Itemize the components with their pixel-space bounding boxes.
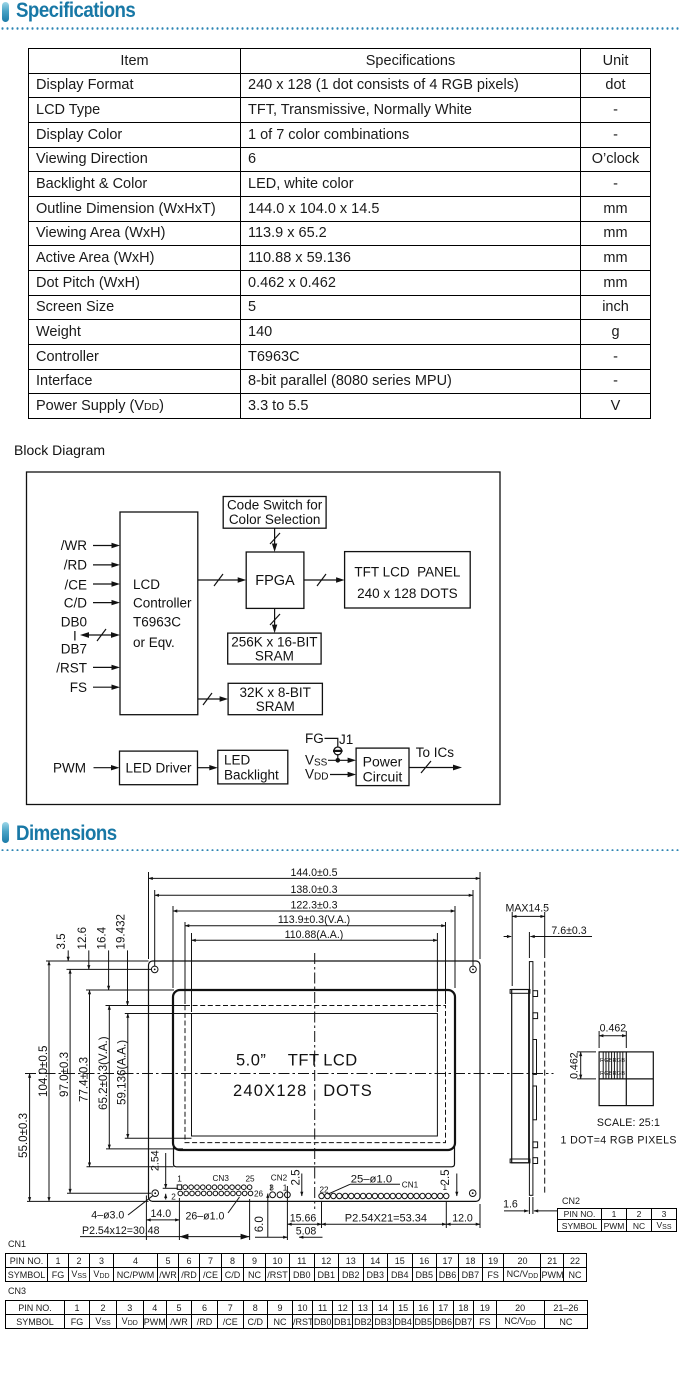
wire PWM to LED Driver xyxy=(94,765,120,770)
svg-text:59.136(A.A.): 59.136(A.A.) xyxy=(116,1040,129,1105)
side view bezel body xyxy=(512,990,529,1163)
dimension 77.4±0.3 xyxy=(77,990,173,1167)
dot pitch detail grid xyxy=(599,1052,653,1106)
svg-text:/CE: /CE xyxy=(64,578,87,593)
svg-text:32K x 8-BIT: 32K x 8-BIT xyxy=(240,685,311,700)
jumper J1 circle symbol xyxy=(333,747,343,755)
svg-text:12.6: 12.6 xyxy=(76,927,89,950)
svg-text:SRAM: SRAM xyxy=(256,699,295,714)
svg-text:113.9±0.3(V.A.): 113.9±0.3(V.A.) xyxy=(278,914,350,926)
mounting hole top-left xyxy=(151,966,158,973)
dimension 59.136 active area xyxy=(116,1014,192,1139)
viewing area dashed rectangle xyxy=(185,1006,446,1143)
side view mounting tabs xyxy=(533,1040,537,1120)
svg-text:CN3: CN3 xyxy=(213,1174,230,1183)
FPGA U-block xyxy=(246,552,304,608)
svg-text:0.462: 0.462 xyxy=(600,1023,627,1035)
svg-text:25: 25 xyxy=(245,1175,255,1184)
svg-text:C/D: C/D xyxy=(64,596,88,611)
svg-text:/WR: /WR xyxy=(61,538,87,553)
dimension 104.0±0.5 xyxy=(37,961,149,1201)
block diagram svg xyxy=(0,430,680,820)
svg-text:7.6±0.3: 7.6±0.3 xyxy=(551,925,586,937)
svg-text:/RST: /RST xyxy=(56,661,87,676)
node junction dot on Vss line xyxy=(336,758,341,763)
side view bezel top lip xyxy=(510,990,530,994)
dimension 122.3±0.3 xyxy=(173,900,455,989)
svg-text:2.5: 2.5 xyxy=(289,1169,302,1185)
svg-text:4–ø3.0: 4–ø3.0 xyxy=(91,1210,124,1222)
dimension 7.6±0.3 xyxy=(504,925,592,958)
svg-text:LCD: LCD xyxy=(133,577,160,592)
svg-text:Circuit: Circuit xyxy=(363,769,403,785)
wire FPGA to TFT panel with slash xyxy=(304,574,345,586)
signal label /WR xyxy=(61,538,87,553)
dimension 97.0±0.3 xyxy=(58,969,151,1193)
label To ICs xyxy=(416,745,455,760)
label CN1 pin1 xyxy=(443,1183,448,1192)
signal label FG xyxy=(305,731,324,746)
svg-text:Power: Power xyxy=(363,754,403,770)
dimension 2.54 row pitch xyxy=(150,1150,178,1199)
CN3 label xyxy=(8,1286,26,1296)
CN2 table xyxy=(557,1208,677,1232)
svg-text:DB0: DB0 xyxy=(61,615,87,630)
Specifications section header xyxy=(2,2,9,22)
32K x 8-BIT SRAM block xyxy=(228,683,322,714)
label CN3 pin1 xyxy=(177,1175,182,1184)
LED Backlight block xyxy=(218,750,288,784)
wire Code Switch to FPGA with slash xyxy=(270,528,280,552)
svg-text:DOTS: DOTS xyxy=(323,1082,372,1100)
mounting hole bottom-right xyxy=(469,1190,476,1197)
svg-text:14.0: 14.0 xyxy=(150,1208,171,1220)
svg-text:97.0±0.3: 97.0±0.3 xyxy=(58,1052,71,1097)
side view PCB board xyxy=(529,962,533,1196)
bezel lower tray outline xyxy=(174,1147,455,1167)
dimension 2.5 right xyxy=(439,1169,457,1196)
TFT LCD PANEL block xyxy=(345,552,471,608)
label CN3 pin25 xyxy=(245,1175,255,1184)
wire J1 to Vss junction xyxy=(337,755,339,761)
svg-text:FPGA: FPGA xyxy=(255,573,295,589)
dimension 5.08 xyxy=(255,1226,323,1238)
svg-text:CN2: CN2 xyxy=(271,1174,288,1183)
label CN3 pin26 xyxy=(254,1190,264,1199)
svg-text:144.0±0.5: 144.0±0.5 xyxy=(290,867,337,879)
dimension 1.6 xyxy=(503,1197,558,1214)
Dimensions section header xyxy=(2,822,9,843)
dimension 65.2±0.3 viewing area xyxy=(97,1006,183,1149)
connector CN2 pins xyxy=(270,1192,291,1198)
mounting hole top-right xyxy=(470,966,477,973)
svg-text:P2.54x12=30.48: P2.54x12=30.48 xyxy=(82,1225,160,1237)
svg-text:2: 2 xyxy=(171,1193,176,1202)
svg-text:65.2±0.3(V.A.): 65.2±0.3(V.A.) xyxy=(97,1036,110,1110)
label 26-diameter 1.0 with leader xyxy=(186,1197,240,1223)
svg-text:Controller: Controller xyxy=(133,596,192,611)
dimension 113.9±0.3 viewing area xyxy=(185,914,446,1004)
label 1 DOT=4 RGB PIXELS xyxy=(561,1135,677,1147)
dimension 110.88 active area xyxy=(192,929,438,1012)
svg-text:FG: FG xyxy=(305,731,324,746)
CN1 label xyxy=(8,1239,26,1249)
svg-text:SCALE: 25:1: SCALE: 25:1 xyxy=(597,1117,660,1129)
signal label FS xyxy=(70,680,87,695)
CN2 label xyxy=(562,1196,580,1206)
wire /RST arrow xyxy=(93,665,120,670)
svg-text:240 x 128 DOTS: 240 x 128 DOTS xyxy=(357,586,458,601)
signal label Vss xyxy=(305,753,328,769)
svg-text:12.0: 12.0 xyxy=(452,1213,473,1225)
signal label J1 xyxy=(339,732,353,747)
svg-text:6.0: 6.0 xyxy=(253,1216,266,1232)
wire C/D arrow xyxy=(93,600,120,605)
label CN1 xyxy=(402,1181,419,1190)
svg-text:LED Driver: LED Driver xyxy=(125,761,192,776)
label CN2 pin1 xyxy=(283,1183,288,1192)
svg-text:22: 22 xyxy=(319,1186,329,1195)
dimension 3.5 xyxy=(55,933,68,961)
wire /RD arrow xyxy=(93,562,120,567)
dimensions drawing svg xyxy=(0,855,680,1240)
label CN2 pin3 xyxy=(269,1183,274,1192)
svg-text:Code Switch for: Code Switch for xyxy=(227,498,323,513)
svg-text:5.0”: 5.0” xyxy=(236,1052,266,1070)
label 25-diameter 1.0 with leader xyxy=(328,1174,400,1195)
dimension MAX14.5 xyxy=(506,903,550,987)
dimension 19.432 xyxy=(106,914,186,1005)
label CN2 xyxy=(271,1174,288,1183)
dimension 144.0±0.5 xyxy=(149,867,481,959)
svg-text:55.0±0.3: 55.0±0.3 xyxy=(17,1113,30,1158)
signal label PWM xyxy=(53,761,86,776)
horizontal centerline xyxy=(25,1073,554,1075)
svg-text:Color Selection: Color Selection xyxy=(229,512,321,527)
wire LED Driver to LED Backlight xyxy=(198,765,218,770)
PCB outline front view xyxy=(149,961,481,1201)
mounting hole bottom-left xyxy=(152,1190,159,1197)
dimension 14.0 xyxy=(146,1196,179,1241)
svg-text:DB7: DB7 xyxy=(61,642,87,657)
dimension 2.5 left xyxy=(289,1169,302,1196)
connector CN3 top row pins 3-25 xyxy=(183,1185,252,1190)
svg-text:122.3±0.3: 122.3±0.3 xyxy=(290,900,337,912)
svg-text:To ICs: To ICs xyxy=(416,745,455,760)
signal label DB0-DB7 xyxy=(61,615,87,657)
svg-text:PWM: PWM xyxy=(53,761,86,776)
256K x 16-BIT SRAM block xyxy=(228,633,321,664)
svg-text:J1: J1 xyxy=(339,732,353,747)
svg-text:104.0±0.5: 104.0±0.5 xyxy=(37,1046,50,1098)
svg-text:RGBRGB: RGBRGB xyxy=(600,1071,625,1077)
CN1 table xyxy=(5,1253,587,1282)
svg-text:1.6: 1.6 xyxy=(503,1199,518,1211)
Code Switch for Color Selection box xyxy=(223,497,326,529)
svg-text:VDD: VDD xyxy=(305,767,328,783)
active area rectangle xyxy=(192,1014,438,1137)
signal label /CE xyxy=(64,578,87,593)
wire DB bus bidirectional arrow with slash xyxy=(80,629,120,641)
wire /CE arrow xyxy=(93,581,120,586)
svg-text:LED: LED xyxy=(224,753,251,768)
svg-text:26: 26 xyxy=(254,1190,264,1199)
wire LCD Controller to 32K SRAM with slash xyxy=(198,693,228,705)
svg-text:T6963C: T6963C xyxy=(133,615,181,630)
Block Diagram title xyxy=(14,442,105,458)
dimension 15.66 xyxy=(287,1186,321,1240)
dimension 6.0 xyxy=(253,1194,268,1237)
svg-text:5.08: 5.08 xyxy=(296,1226,317,1238)
dimension 138.0±0.3 xyxy=(155,884,473,966)
svg-text:19.432: 19.432 xyxy=(115,914,128,949)
dimension P2.54x12=30.48 xyxy=(80,1199,250,1240)
svg-text:26–ø1.0: 26–ø1.0 xyxy=(186,1211,225,1223)
dimension 0.462 vertical xyxy=(569,1052,597,1079)
CN3 table xyxy=(5,1300,588,1329)
svg-text:3.5: 3.5 xyxy=(55,933,68,949)
label 4-diameter 3.0 with leader xyxy=(91,1196,152,1222)
svg-text:0.462: 0.462 xyxy=(569,1052,581,1079)
wire FPGA to 256K SRAM with slash xyxy=(270,608,280,633)
label 5.0 TFT LCD xyxy=(236,1052,358,1070)
wire Power Circuit output To ICs with slash xyxy=(409,761,462,773)
svg-text:138.0±0.3: 138.0±0.3 xyxy=(290,884,337,896)
svg-text:2.54: 2.54 xyxy=(150,1150,162,1171)
LCD Controller U-block xyxy=(120,512,198,715)
side view pins xyxy=(533,991,538,1164)
dimension 0.462 horizontal xyxy=(599,1023,626,1049)
svg-text:RGBRGB: RGBRGB xyxy=(600,1058,625,1064)
specifications table xyxy=(28,48,651,419)
label CN3 xyxy=(213,1174,230,1183)
svg-text:1: 1 xyxy=(177,1175,182,1184)
connector CN3 pin 1 square pad xyxy=(177,1185,182,1190)
LED Driver block xyxy=(120,751,198,785)
signal label C/D xyxy=(64,596,88,611)
svg-text:LCD: LCD xyxy=(323,1052,358,1070)
label CN3 pin2 xyxy=(171,1193,176,1202)
svg-text:3: 3 xyxy=(269,1183,274,1192)
wire Vdd to Power Circuit xyxy=(330,772,356,777)
svg-text:Block Diagram: Block Diagram xyxy=(14,442,105,458)
wire LCD Controller to FPGA with slash xyxy=(198,574,246,586)
dimension P2.54X21=53.34 xyxy=(322,1201,447,1228)
dimension 16.4 xyxy=(86,926,174,990)
wire FS arrow xyxy=(93,685,120,690)
connector CN3 bottom row pins 2-26 xyxy=(178,1191,253,1196)
svg-text:Backlight: Backlight xyxy=(224,768,279,783)
block diagram outer border xyxy=(27,472,501,805)
label 240X128 DOTS xyxy=(233,1082,373,1100)
svg-text:TFT LCD PANEL: TFT LCD PANEL xyxy=(354,565,461,580)
svg-text:110.88(A.A.): 110.88(A.A.) xyxy=(285,929,344,941)
signal label Vdd xyxy=(305,767,328,783)
Power Circuit block xyxy=(356,748,409,786)
side view front face dashed line xyxy=(544,962,546,1196)
dimension 12.0 xyxy=(446,1204,480,1228)
svg-text:256K x 16-BIT: 256K x 16-BIT xyxy=(231,635,317,650)
svg-text:77.4±0.3: 77.4±0.3 xyxy=(77,1057,90,1102)
wire FG to jumper J1 xyxy=(325,738,338,747)
connector CN1 pins xyxy=(319,1193,449,1198)
svg-text:240X128: 240X128 xyxy=(233,1082,307,1100)
signal label /RST xyxy=(56,661,87,676)
svg-text:SRAM: SRAM xyxy=(255,649,294,664)
svg-text:15.66: 15.66 xyxy=(290,1213,317,1225)
side view bezel bottom lip xyxy=(510,1159,530,1163)
svg-text:P2.54X21=53.34: P2.54X21=53.34 xyxy=(345,1213,427,1225)
wire Vss to Power Circuit xyxy=(328,758,356,763)
svg-text:25–ø1.0: 25–ø1.0 xyxy=(351,1174,392,1186)
dimension 12.6 xyxy=(67,927,152,969)
svg-text:/RD: /RD xyxy=(64,558,88,573)
signal label /RD xyxy=(64,558,88,573)
wire /WR arrow xyxy=(93,543,120,548)
svg-text:1: 1 xyxy=(443,1183,448,1192)
label SCALE 25:1 xyxy=(597,1117,660,1129)
svg-text:or Eqv.: or Eqv. xyxy=(133,635,175,650)
label CN1 pin22 xyxy=(319,1186,329,1195)
dot pitch RGB sub-pixel stripes xyxy=(600,1052,625,1079)
svg-text:CN1: CN1 xyxy=(402,1181,419,1190)
svg-text:FS: FS xyxy=(70,680,87,695)
svg-text:1 DOT=4 RGB PIXELS: 1 DOT=4 RGB PIXELS xyxy=(561,1135,677,1147)
vertical centerline xyxy=(314,953,316,1209)
metal bezel frame xyxy=(173,990,455,1150)
dimension 55.0±0.3 xyxy=(17,1074,148,1202)
svg-text:16.4: 16.4 xyxy=(96,926,109,949)
